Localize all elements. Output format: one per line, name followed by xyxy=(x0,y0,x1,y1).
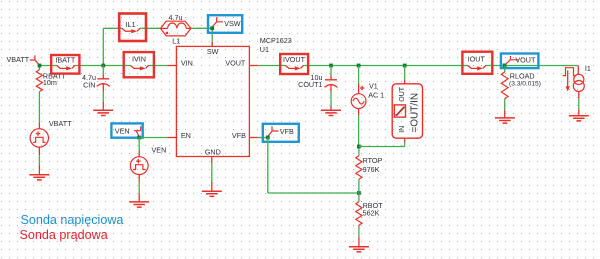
lead I1 top xyxy=(577,66,579,75)
ammeter IL1 xyxy=(119,14,146,42)
lead to ground xyxy=(38,165,40,174)
ground RBOT xyxy=(349,247,369,252)
svg-text:VBATT: VBATT xyxy=(49,119,72,128)
wire input rail xyxy=(40,65,57,67)
dot L1 phase xyxy=(166,32,169,35)
svg-text:OUT: OUT xyxy=(399,86,406,102)
svg-text:IVIN: IVIN xyxy=(132,54,146,63)
wire VFB to divider tap xyxy=(268,192,359,194)
lead CIN ground xyxy=(102,102,104,110)
resistor RTOP xyxy=(356,156,362,180)
svg-text:Sonda napięciowa: Sonda napięciowa xyxy=(21,213,124,227)
svg-text:VOUT: VOUT xyxy=(515,55,536,64)
ground CIN xyxy=(93,110,113,115)
wire VEN source to ground xyxy=(138,182,140,193)
resistor RBOT xyxy=(356,202,362,226)
wire meter top riser xyxy=(404,66,406,80)
pin SW stub xyxy=(211,42,213,47)
lead RBOT bottom xyxy=(358,225,360,227)
svg-text:VFB: VFB xyxy=(232,131,246,140)
resistor RLOAD xyxy=(501,72,508,99)
wire VBATT branch upper xyxy=(38,66,40,70)
svg-text:(3.3/0.015): (3.3/0.015) xyxy=(509,80,541,87)
wire RTOP to tap xyxy=(358,179,360,201)
pin VOUT stub xyxy=(249,65,258,67)
wire VFB node down xyxy=(267,138,269,194)
source VBATT xyxy=(30,129,48,147)
pin GND stub xyxy=(211,157,213,164)
svg-text:IN: IN xyxy=(399,126,406,133)
svg-text:CIN: CIN xyxy=(83,81,95,90)
ammeter IOUT xyxy=(462,52,492,74)
lead VBATT source bottom xyxy=(38,147,40,155)
junction VOUT node xyxy=(503,64,507,68)
wire V1 branch xyxy=(358,66,360,84)
resistor RBATT xyxy=(36,70,42,92)
svg-text:I1: I1 xyxy=(585,64,591,73)
ground COUT1 xyxy=(321,110,341,115)
svg-text:VSW: VSW xyxy=(224,19,241,28)
svg-text:EN: EN xyxy=(181,131,191,140)
lead VEN ground xyxy=(138,193,140,202)
source VEN xyxy=(130,157,148,175)
svg-text:AC 1: AC 1 xyxy=(368,90,384,99)
svg-text:976K: 976K xyxy=(363,165,380,174)
junction VBATT node xyxy=(38,64,42,68)
junction VSW node xyxy=(210,26,214,30)
ground U1 xyxy=(202,191,222,196)
svg-text:4.7u: 4.7u xyxy=(169,13,183,22)
wire output rail xyxy=(258,65,285,67)
capacitor COUT1 xyxy=(325,76,338,93)
wire CIN to ground xyxy=(102,92,104,102)
wire COUT1 to ground xyxy=(330,92,332,106)
source I1 xyxy=(563,68,585,92)
wire VEN node down xyxy=(138,138,140,152)
lead V1 top xyxy=(358,83,360,93)
wire VEN node to EN xyxy=(139,137,167,139)
arrowhead I1 xyxy=(566,86,570,91)
junction V1 top node xyxy=(357,64,361,68)
lead I1 ground xyxy=(578,110,580,116)
lead VEN source bottom xyxy=(138,175,140,182)
ground RLOAD xyxy=(495,118,515,123)
wire L1 to VSW node xyxy=(191,27,213,29)
ground VBATT xyxy=(29,175,49,180)
svg-text:VIN: VIN xyxy=(181,58,193,67)
wire riser to inductor rail xyxy=(102,28,104,65)
junction V1 bottom node xyxy=(357,145,361,149)
probe VSW xyxy=(208,15,242,33)
meter icon box xyxy=(394,105,405,117)
capacitor CIN xyxy=(97,75,110,92)
wire junction to RTOP xyxy=(358,148,360,156)
svg-text:L1: L1 xyxy=(172,36,180,45)
svg-text:VOUT: VOUT xyxy=(225,58,246,67)
ammeter IVIN xyxy=(124,52,154,77)
lead RBOT ground xyxy=(358,237,360,246)
junction COUT1 node xyxy=(329,64,333,68)
ammeter IBATT xyxy=(51,55,79,74)
lead V1 bottom xyxy=(358,109,360,116)
wire V1 bottom to meter xyxy=(359,146,405,148)
wire meter bottom riser xyxy=(404,142,406,147)
wire VSW node to SW pin xyxy=(211,28,213,41)
wire RBOT to ground xyxy=(358,227,360,237)
ammeter IVOUT xyxy=(280,54,308,74)
meter =OUT/IN body xyxy=(392,84,422,138)
junction RTOP tap xyxy=(357,191,361,195)
wire VOUT node down xyxy=(504,66,506,72)
node VBATT marker xyxy=(30,55,40,65)
svg-text:VBATT: VBATT xyxy=(7,55,30,64)
wire VFB pin to node xyxy=(258,137,268,139)
lead VBATT source top xyxy=(38,123,40,129)
lead I1 bottom xyxy=(578,92,580,99)
lead meter bottom xyxy=(404,138,406,142)
wire GND pin xyxy=(211,163,213,182)
wire COUT1 branch xyxy=(330,66,332,76)
svg-text:SW: SW xyxy=(207,47,219,56)
op-amp U1 MCP1623 body xyxy=(176,46,249,156)
junction CIN node xyxy=(101,64,105,68)
svg-text:U1: U1 xyxy=(260,45,269,54)
svg-text:MCP1623: MCP1623 xyxy=(260,36,292,45)
svg-text:VEN: VEN xyxy=(115,126,130,135)
lead VEN source top xyxy=(138,151,140,157)
junction VFB node xyxy=(266,136,270,140)
wire CIN branch xyxy=(102,66,104,75)
svg-text:IOUT: IOUT xyxy=(468,55,486,64)
junction VEN node xyxy=(137,136,141,140)
svg-text:562K: 562K xyxy=(363,209,380,218)
probe VOUT xyxy=(501,54,539,69)
lead COUT1 ground xyxy=(330,106,332,110)
wire inductor rail xyxy=(103,27,122,29)
lead GND pin ground xyxy=(211,182,213,191)
pin VFB stub xyxy=(249,137,257,139)
inductor L1 xyxy=(161,21,191,36)
svg-text:Sonda prądowa: Sonda prądowa xyxy=(20,228,108,242)
svg-text:IBATT: IBATT xyxy=(55,56,75,65)
svg-text:VEN: VEN xyxy=(152,146,167,155)
svg-text:IL1: IL1 xyxy=(126,20,136,29)
meter icon ramp xyxy=(395,107,404,115)
pin VIN stub xyxy=(167,65,176,67)
svg-text:10m: 10m xyxy=(43,78,57,87)
source V1 AC xyxy=(351,86,366,109)
wire I1 to ground xyxy=(578,98,580,109)
probe VFB xyxy=(263,124,299,142)
pin EN stub xyxy=(167,137,176,139)
wire RBATT to VBATT source xyxy=(38,92,40,123)
ground I1 xyxy=(569,116,589,121)
svg-text:VFB: VFB xyxy=(280,127,294,136)
svg-text:V1: V1 xyxy=(369,81,378,90)
ground VEN xyxy=(129,202,149,207)
svg-text:IVOUT: IVOUT xyxy=(283,55,306,64)
svg-text:GND: GND xyxy=(205,148,221,157)
wire V1 bottom xyxy=(358,115,360,147)
svg-text:COUT1: COUT1 xyxy=(298,80,322,89)
junction meter top node xyxy=(403,64,407,68)
wire VBATT source to ground xyxy=(38,155,40,165)
wire RLOAD to ground xyxy=(504,99,506,110)
probe VEN xyxy=(111,123,142,137)
lead RLOAD ground xyxy=(504,110,506,118)
svg-text:RLOAD: RLOAD xyxy=(510,72,535,81)
lead meter top xyxy=(404,80,406,84)
svg-text:=OUT/IN: =OUT/IN xyxy=(410,93,421,133)
